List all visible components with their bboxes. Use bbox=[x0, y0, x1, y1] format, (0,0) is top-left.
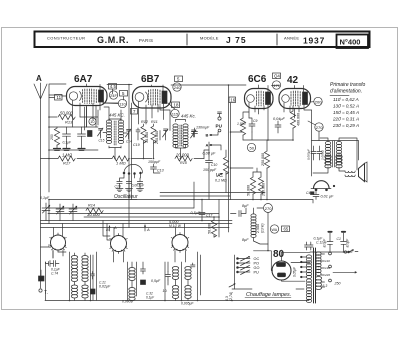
svg-text:250: 250 bbox=[50, 134, 54, 141]
group 1 cap bbox=[91, 272, 95, 280]
svg-text:0,08 μF: 0,08 μF bbox=[203, 152, 217, 156]
tuning gang capacitor 2 bbox=[56, 206, 64, 214]
tube 6B7 envelope bbox=[133, 87, 172, 109]
circled 24F bbox=[109, 91, 117, 99]
main vertical bus x129 bbox=[129, 85, 132, 228]
tube 6C6 envelope bbox=[245, 89, 274, 109]
output transformer primary bbox=[325, 141, 330, 165]
svg-text:2.500: 2.500 bbox=[256, 224, 260, 234]
osc cap C17 bbox=[126, 178, 131, 189]
wires 6C6 42 area bbox=[231, 132, 294, 140]
svg-text:PARIS: PARIS bbox=[139, 38, 153, 43]
tube 6C6 grids bbox=[257, 91, 264, 106]
rail y217 bbox=[84, 216, 219, 218]
svg-text:2.000Ω: 2.000Ω bbox=[321, 149, 325, 161]
svg-text:445 Kc.: 445 Kc. bbox=[181, 114, 196, 119]
resistor 50.000 vertical low bbox=[250, 177, 255, 194]
title divider 2 bbox=[276, 34, 278, 45]
wire across low bbox=[231, 168, 262, 172]
svg-text:170: 170 bbox=[273, 83, 280, 88]
tube 6C6 cathode circle bbox=[247, 95, 255, 103]
svg-text:18: 18 bbox=[174, 103, 179, 108]
circled 270a bbox=[315, 123, 323, 131]
svg-text:400.000: 400.000 bbox=[297, 113, 301, 126]
svg-text:CONSTRUCTEUR: CONSTRUCTEUR bbox=[47, 36, 85, 41]
cap 0,01uF under dome bbox=[313, 191, 319, 200]
field coil dome bbox=[314, 181, 330, 189]
vertical x219 bbox=[218, 200, 220, 238]
svg-text:8μF: 8μF bbox=[242, 204, 249, 208]
IF1 frame wires bbox=[103, 119, 127, 148]
tube 6B7 grids bbox=[149, 89, 161, 105]
svg-text:7: 7 bbox=[133, 109, 136, 114]
tuning gang capacitor 1 bbox=[42, 205, 50, 213]
tube 6A7 grids bbox=[83, 89, 97, 104]
svg-text:250.000: 250.000 bbox=[261, 153, 265, 167]
small dark rect near C4 bbox=[311, 192, 315, 195]
volume control VC bbox=[223, 157, 228, 174]
svg-text:WA: WA bbox=[272, 228, 278, 232]
svg-text:(13 W): (13 W) bbox=[261, 223, 265, 233]
svg-text:250: 250 bbox=[334, 282, 341, 286]
boxed 16 bbox=[229, 97, 236, 103]
svg-text:Oscillateur: Oscillateur bbox=[114, 194, 138, 200]
svg-text:0,1 MΩ: 0,1 MΩ bbox=[215, 179, 227, 183]
power transformer primary bbox=[306, 255, 311, 279]
diagonal wires choke bbox=[254, 208, 269, 244]
rail y223.5 bbox=[41, 223, 233, 225]
wire box11 bbox=[49, 97, 55, 99]
svg-text:110̊ = 0,62 A: 110̊ = 0,62 A bbox=[333, 96, 359, 102]
svg-text:16: 16 bbox=[230, 98, 235, 103]
circled 270b bbox=[264, 204, 273, 213]
IF1 core bbox=[114, 121, 116, 145]
svg-text:Primaire transfo: Primaire transfo bbox=[330, 82, 366, 88]
svg-text:0,005μF: 0,005μF bbox=[307, 149, 311, 160]
resistor 250.000 vertical low bbox=[258, 177, 263, 194]
wire diagonal to 110 bbox=[103, 102, 118, 105]
svg-text:50: 50 bbox=[250, 145, 255, 150]
svg-text:10.: 10. bbox=[163, 289, 168, 293]
wire to speaker bbox=[313, 167, 345, 173]
osc cap C16 bbox=[117, 180, 122, 189]
bottom rail right bbox=[310, 251, 352, 253]
svg-text:6C6: 6C6 bbox=[248, 74, 267, 85]
svg-text:80: 80 bbox=[273, 249, 285, 260]
tube 42 grids bbox=[291, 91, 300, 106]
switch row OC bbox=[237, 258, 239, 260]
resistor 1Mohm second on y158 bbox=[112, 156, 129, 161]
dark block bbox=[88, 131, 93, 137]
main vertical bus left bbox=[48, 95, 50, 224]
svg-text:5: 5 bbox=[177, 77, 180, 82]
svg-text:0,05μF: 0,05μF bbox=[293, 266, 297, 277]
title block border bbox=[35, 32, 370, 48]
svg-text:OC: OC bbox=[254, 257, 260, 261]
socket 1 leads bbox=[53, 224, 66, 259]
svg-text:R10: R10 bbox=[180, 161, 188, 165]
svg-text:150 pμF: 150 pμF bbox=[203, 168, 217, 172]
circled 200 bbox=[314, 97, 322, 105]
antenna bbox=[34, 83, 47, 288]
svg-text:R13: R13 bbox=[65, 120, 73, 125]
svg-text:C17: C17 bbox=[206, 214, 212, 218]
circled 110 bbox=[118, 99, 126, 107]
title number box N 400 bbox=[337, 35, 369, 49]
svg-text:0,1μF: 0,1μF bbox=[63, 141, 72, 145]
svg-text:MODÈLE: MODÈLE bbox=[200, 36, 219, 41]
svg-text:42: 42 bbox=[287, 75, 299, 86]
rail y220.5 bbox=[41, 220, 233, 222]
output transformer secondary bbox=[336, 141, 341, 165]
circled 50 bbox=[247, 143, 255, 151]
svg-text:8,0μF: 8,0μF bbox=[346, 238, 350, 248]
svg-text:C10: C10 bbox=[211, 163, 217, 167]
svg-text:0,04μF: 0,04μF bbox=[273, 117, 285, 121]
small cap 400 bbox=[191, 263, 196, 267]
boxed 18 bbox=[172, 102, 180, 108]
svg-text:115: 115 bbox=[172, 111, 179, 116]
svg-text:C14: C14 bbox=[126, 140, 132, 144]
ground bars bbox=[54, 149, 61, 151]
svg-text:R12: R12 bbox=[141, 120, 149, 124]
HP wire with arrow bbox=[333, 272, 357, 274]
rectifier 80 envelope bbox=[272, 261, 291, 280]
svg-text:1 MΩ: 1 MΩ bbox=[116, 161, 126, 166]
svg-text:445 KC.: 445 KC. bbox=[109, 113, 125, 118]
svg-text:d'alimentation.: d'alimentation. bbox=[330, 89, 362, 95]
svg-text:A: A bbox=[206, 143, 209, 148]
svg-text:50.000: 50.000 bbox=[60, 111, 73, 116]
heater bus bbox=[232, 288, 304, 290]
svg-text:5: 5 bbox=[122, 91, 125, 96]
svg-text:220̊ = 0,31 A: 220̊ = 0,31 A bbox=[332, 116, 359, 122]
svg-text:A: A bbox=[113, 225, 117, 230]
svg-text:GO: GO bbox=[254, 266, 260, 270]
svg-text:0,5μF: 0,5μF bbox=[151, 279, 161, 283]
output transformer core bbox=[333, 141, 335, 167]
svg-text:PO: PO bbox=[254, 262, 260, 266]
cap c left1 bbox=[63, 127, 71, 148]
svg-text:1.500: 1.500 bbox=[237, 122, 246, 126]
transformer top leads bbox=[320, 138, 357, 170]
boxed 11 bbox=[55, 95, 63, 101]
left column: wire y117 bbox=[49, 110, 98, 125]
svg-text:30.000: 30.000 bbox=[145, 132, 149, 143]
svg-text:150pμF: 150pμF bbox=[148, 160, 161, 164]
tube 6A7 cathode circle bbox=[69, 92, 77, 100]
svg-text:1937: 1937 bbox=[303, 36, 325, 46]
svg-text:150̊ = 0,45 A: 150̊ = 0,45 A bbox=[333, 109, 359, 115]
wire 42 to 200 bbox=[310, 101, 314, 103]
socket 2 bbox=[111, 236, 127, 252]
oscillator leads bbox=[120, 174, 141, 180]
svg-text:65: 65 bbox=[284, 227, 289, 232]
title divider 1 bbox=[186, 34, 188, 45]
socket1 to HF cap wire bbox=[46, 251, 54, 264]
small caps mid left bbox=[141, 262, 146, 274]
output transformer frame bbox=[312, 141, 359, 177]
IF1 trimmer left bbox=[98, 128, 104, 136]
svg-text:270: 270 bbox=[265, 206, 272, 211]
osc underline bbox=[113, 199, 137, 201]
boxed 5b bbox=[175, 76, 183, 82]
svg-text:6,3: 6,3 bbox=[323, 284, 328, 288]
svg-text:N°400: N°400 bbox=[340, 38, 361, 47]
svg-text:250.000: 250.000 bbox=[262, 183, 266, 197]
svg-text:8,0μF: 8,0μF bbox=[323, 238, 327, 248]
svg-text:24F: 24F bbox=[110, 93, 117, 98]
svg-text:B: B bbox=[206, 133, 209, 138]
IF2 winding right bbox=[183, 124, 188, 148]
tube 6B7 cathode arc bbox=[146, 92, 148, 102]
group 1 core mark bbox=[91, 289, 96, 294]
svg-text:C1: C1 bbox=[337, 237, 341, 241]
tube 6B7 anode bbox=[162, 91, 167, 104]
cap c left2 bbox=[78, 127, 86, 148]
boxed 45 bbox=[109, 84, 117, 90]
wire diagonal 6B7 to 115 bbox=[168, 103, 175, 109]
extra socket2 feed wires bbox=[103, 221, 111, 241]
tube 6A7 anode bbox=[99, 90, 104, 102]
wire 6B7 top leads bbox=[152, 85, 164, 91]
svg-text:R14: R14 bbox=[88, 204, 95, 208]
switch row GO bbox=[237, 267, 239, 269]
circled 240 bbox=[173, 83, 181, 91]
resistor 250.000 vertical mid bbox=[264, 151, 269, 168]
mid-bottom windings row2 bbox=[172, 286, 178, 299]
verticals to 6A7 bbox=[85, 107, 87, 130]
circled 10 bbox=[89, 118, 96, 125]
wire 270a to transformer bbox=[318, 132, 320, 141]
tuning gang capacitor 3 bbox=[69, 206, 77, 214]
primary taps bbox=[302, 257, 307, 277]
svg-text:11: 11 bbox=[57, 95, 62, 100]
svg-text:C4: C4 bbox=[306, 191, 310, 195]
tube 42 envelope bbox=[279, 89, 311, 109]
svg-text:270: 270 bbox=[316, 125, 323, 130]
svg-text:0,01 μF: 0,01 μF bbox=[321, 195, 335, 199]
rectifier 80 leads bbox=[254, 251, 311, 281]
group 1 wires bbox=[70, 252, 91, 301]
tube 42 cathode circle bbox=[282, 95, 290, 103]
tube 6A7 bottom leads bbox=[73, 100, 119, 127]
osc grounds bbox=[116, 189, 123, 192]
heater arrow bbox=[229, 284, 235, 288]
rail y208 bbox=[49, 207, 194, 209]
svg-text:230̊ = 0,29 A: 230̊ = 0,29 A bbox=[332, 122, 359, 128]
svg-text:R11: R11 bbox=[151, 120, 158, 124]
svg-text:6A7: 6A7 bbox=[74, 74, 93, 85]
terminal circles right bbox=[329, 252, 332, 255]
socket 3 leads bbox=[175, 224, 186, 263]
boxed 04 bbox=[273, 73, 281, 79]
svg-text:A: A bbox=[146, 227, 150, 232]
svg-text:C15: C15 bbox=[99, 139, 105, 143]
filter choke vertical bbox=[251, 214, 256, 238]
tube 6B7 cathode circle bbox=[135, 93, 144, 102]
svg-text:J 75: J 75 bbox=[226, 35, 247, 45]
svg-text:30.000: 30.000 bbox=[87, 212, 100, 217]
svg-text:130̊ = 0,52 A: 130̊ = 0,52 A bbox=[333, 103, 359, 109]
wire trimmer IF1 left down bbox=[101, 135, 129, 139]
band switch bbox=[234, 255, 236, 289]
bottom coil group 1 row 2 bbox=[71, 269, 77, 282]
left sub caps row bbox=[49, 127, 98, 150]
socket 3 bbox=[172, 235, 188, 251]
svg-text:4.5: 4.5 bbox=[110, 84, 117, 89]
svg-text:C16: C16 bbox=[115, 185, 121, 189]
svg-text:PU: PU bbox=[216, 124, 223, 129]
extra mid verticals bbox=[209, 142, 226, 200]
IF1 winding left bbox=[106, 120, 111, 144]
vertical from VC bbox=[193, 182, 195, 208]
svg-text:(2,7A): (2,7A) bbox=[229, 292, 233, 301]
switch row PO bbox=[237, 262, 239, 264]
svg-text:Q4: Q4 bbox=[274, 74, 280, 79]
svg-text:0,1μF: 0,1μF bbox=[146, 296, 155, 300]
speaker voice coil bbox=[345, 171, 355, 173]
main vertical bus x228 bbox=[229, 85, 231, 232]
svg-text:50.000: 50.000 bbox=[247, 185, 251, 196]
HF cap left bbox=[49, 261, 60, 267]
svg-text:220: 220 bbox=[324, 273, 330, 277]
bottom coil group 1 row 3 bbox=[71, 285, 77, 298]
svg-text:B: B bbox=[106, 227, 109, 232]
wire 6A7 top leads bbox=[87, 84, 101, 90]
wires 6A7 to IF1 bbox=[96, 89, 124, 127]
circled WA + boxed 65 bbox=[270, 225, 278, 233]
IF1 trimmer right bbox=[126, 129, 132, 137]
svg-text:T.: T. bbox=[44, 290, 48, 296]
middle coil column bbox=[129, 268, 135, 281]
boxed 7 bbox=[131, 109, 138, 115]
mid-bottom wires bbox=[165, 252, 201, 301]
caps inside box bbox=[311, 146, 316, 160]
svg-text:200: 200 bbox=[315, 99, 322, 104]
socket 1 bbox=[51, 235, 66, 250]
tube 42 anode bbox=[303, 92, 308, 105]
svg-text:Chauffage lampes.: Chauffage lampes. bbox=[246, 292, 291, 298]
svg-text:0,005μF: 0,005μF bbox=[181, 302, 194, 306]
socket rail y227.5 bbox=[41, 227, 230, 229]
PU terminal bbox=[218, 112, 222, 117]
switch row PU bbox=[237, 271, 239, 273]
svg-text:0,001μF: 0,001μF bbox=[132, 184, 145, 188]
resistor 50.000 vertical right bbox=[211, 220, 216, 237]
bottom rail bbox=[45, 252, 232, 301]
svg-text:240: 240 bbox=[174, 85, 181, 90]
extra terminal circles near plug bbox=[344, 251, 346, 253]
svg-text:130mμF: 130mμF bbox=[196, 126, 210, 130]
svg-text:10: 10 bbox=[90, 120, 94, 124]
secondary taps bbox=[321, 254, 325, 287]
rectifier 80 anode plates bbox=[277, 263, 286, 267]
rail y213.5 bbox=[48, 213, 219, 215]
cap 150puF C13 bbox=[151, 164, 161, 173]
power transformer core bbox=[314, 248, 316, 303]
6C6 cathode cap bbox=[249, 118, 255, 132]
circled 170 bbox=[272, 81, 280, 89]
svg-text:110: 110 bbox=[325, 259, 330, 263]
rail y192.5 bbox=[160, 192, 265, 194]
speaker cone bbox=[359, 164, 365, 182]
svg-text:250.000: 250.000 bbox=[155, 131, 159, 145]
oscillator dome coil bbox=[124, 164, 143, 173]
circled 115 bbox=[171, 109, 179, 117]
vertical HT to 80 bbox=[267, 213, 269, 251]
left dark trimmer bbox=[39, 276, 45, 281]
electrolytic cap 1 bbox=[327, 233, 333, 252]
svg-text:C.74: C.74 bbox=[51, 272, 58, 276]
IF1 leads down bbox=[109, 148, 121, 159]
osc cap C18 with label bbox=[137, 178, 142, 189]
antenna to socket1 wire bbox=[41, 245, 50, 248]
resistor R17 1Mohm on y158 bbox=[41, 158, 113, 160]
svg-text:110: 110 bbox=[119, 101, 126, 106]
socket 2 leads bbox=[114, 224, 124, 263]
svg-text:C19: C19 bbox=[133, 143, 140, 147]
svg-text:A: A bbox=[36, 74, 42, 83]
42 bottom leads bbox=[284, 103, 312, 119]
6C6 cathode resistor bbox=[240, 118, 245, 135]
tube 6C6 anode bbox=[266, 92, 271, 105]
svg-text:G.M.R.: G.M.R. bbox=[97, 35, 129, 45]
extra verticals middle bbox=[160, 131, 209, 286]
wire 6A7 grid top bbox=[49, 95, 66, 96]
HT rail y199.5 bbox=[49, 199, 313, 201]
socket pin dots bbox=[50, 237, 188, 252]
IF2 leads bbox=[160, 106, 186, 159]
svg-text:C13: C13 bbox=[157, 169, 164, 173]
svg-text:ANNÉE: ANNÉE bbox=[284, 36, 299, 41]
svg-text:50.000: 50.000 bbox=[208, 223, 212, 234]
IF2 core bbox=[180, 125, 182, 146]
plug arrow bbox=[349, 250, 359, 252]
cap C19 bbox=[136, 128, 140, 140]
IF2 frame bbox=[176, 120, 186, 122]
bottom rail to transformer bbox=[232, 300, 309, 302]
IF1 winding right bbox=[118, 120, 123, 144]
svg-text:C.21: C.21 bbox=[99, 281, 106, 285]
power transformer secondary bbox=[316, 252, 321, 276]
svg-text:0,02μF: 0,02μF bbox=[99, 285, 111, 289]
mid-bottom block cap bbox=[166, 272, 171, 281]
caps near transformer top bbox=[305, 242, 314, 250]
electrolytic cap 2 bbox=[341, 233, 347, 252]
IF2 winding left bbox=[173, 124, 178, 148]
mid-bottom windings row1 bbox=[172, 267, 178, 280]
top bus wire segments bbox=[49, 84, 279, 95]
wire to 270a bbox=[308, 121, 316, 125]
tube 6A7 envelope bbox=[67, 87, 108, 106]
6B7 bottom leads bbox=[139, 102, 164, 124]
ground terminal T bbox=[39, 289, 42, 292]
rail y196 bbox=[160, 195, 230, 197]
svg-text:8μF: 8μF bbox=[242, 238, 249, 242]
wires right of 42 bbox=[312, 110, 314, 203]
bottom coil group 1 row 1 bbox=[71, 256, 77, 269]
info underline bbox=[330, 95, 349, 97]
svg-text:C9: C9 bbox=[253, 119, 257, 123]
resistor 250 vertical bbox=[54, 128, 59, 145]
resistor 400.000 vertical bbox=[290, 111, 295, 128]
svg-text:PU: PU bbox=[254, 271, 260, 275]
svg-text:6B7: 6B7 bbox=[141, 74, 160, 85]
IF2 trimmer left bbox=[163, 129, 169, 137]
6C6 bottom leads bbox=[249, 103, 268, 141]
IF2 trimmer right bbox=[191, 130, 197, 138]
